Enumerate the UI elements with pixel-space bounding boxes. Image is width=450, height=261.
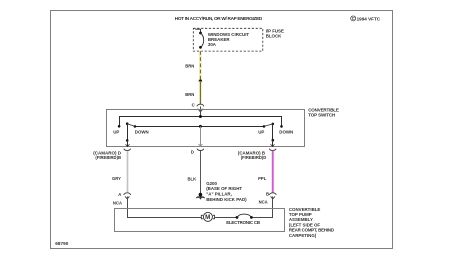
label: CONVERTIBLE TOP PUMP ASSEMBLY xyxy=(289,207,334,238)
svg-text:TOP SWITCH: TOP SWITCH xyxy=(308,113,335,118)
wire: PPL from switch to connector B xyxy=(271,151,274,193)
connector D at switch bottom center xyxy=(191,149,204,155)
svg-text:(BASE OF RIGHT: (BASE OF RIGHT xyxy=(206,186,242,191)
svg-text:BLK: BLK xyxy=(187,177,196,182)
wire: GRY from switch to connector A xyxy=(127,151,129,192)
right UP contact xyxy=(263,125,266,128)
svg-text:BRN: BRN xyxy=(185,64,194,69)
value label: WINDOWS CIRCUIT BREAKER 30A xyxy=(208,32,250,47)
wire: BLK from A into pump box xyxy=(128,196,202,217)
convertible top switch box xyxy=(107,110,305,147)
svg-text:UP: UP xyxy=(113,130,119,135)
wire: from B into pump box xyxy=(251,196,272,217)
convertible top pump assembly box xyxy=(115,209,285,232)
right DOWN contact xyxy=(280,125,283,128)
svg-text:NCA: NCA xyxy=(113,200,122,205)
svg-text:(FIREBIRD)D: (FIREBIRD)D xyxy=(241,155,267,160)
left DOWN contact xyxy=(134,125,137,128)
wire: motor to electronic CB xyxy=(215,217,237,219)
switch ground bus (line 2) xyxy=(135,126,264,128)
right pole wire down xyxy=(272,124,274,140)
wire: BRN solid from splice to connector C xyxy=(199,81,202,104)
svg-text:CONVERTIBLE: CONVERTIBLE xyxy=(308,107,339,112)
connector at left switch output (CAMARO D / FIREBIRD B) xyxy=(93,149,130,161)
left wiper xyxy=(127,124,135,127)
svg-text:M: M xyxy=(205,214,210,221)
svg-text:DOWN: DOWN xyxy=(279,130,293,135)
junction on ground bus xyxy=(199,125,202,128)
border frame xyxy=(51,11,393,249)
I/P fuse block dashed box xyxy=(193,28,262,51)
copyright 1994 VFTC xyxy=(351,16,381,21)
wire: BRN dashed feed from fuse block to splice xyxy=(199,51,202,81)
svg-text:BLOCK: BLOCK xyxy=(266,33,282,38)
right wiper xyxy=(264,124,273,127)
label: G200 location xyxy=(206,181,247,202)
svg-text:D: D xyxy=(191,149,194,154)
svg-text:C: C xyxy=(352,16,355,21)
svg-text:(FIREBIRD)B: (FIREBIRD)B xyxy=(95,155,121,160)
svg-text:30A: 30A xyxy=(208,42,217,47)
svg-text:UP: UP xyxy=(258,130,264,135)
circuit breaker (windows circuit breaker 30A) xyxy=(195,29,203,48)
svg-text:BEHIND KICK PAD): BEHIND KICK PAD) xyxy=(206,197,247,202)
junction on feed bus xyxy=(199,115,202,118)
svg-text:NCA: NCA xyxy=(259,199,268,204)
center drop to terminal D xyxy=(200,126,202,146)
connector A xyxy=(113,192,131,205)
connector at right switch output (CAMARO B / FIREBIRD D) xyxy=(238,149,276,161)
svg-text:ELECTRONIC CB: ELECTRONIC CB xyxy=(226,220,260,225)
svg-text:"A" PILLAR,: "A" PILLAR, xyxy=(206,192,232,197)
left pole pivot xyxy=(126,122,129,125)
svg-text:A: A xyxy=(118,192,121,197)
pump motor M xyxy=(201,212,214,221)
svg-text:DOWN: DOWN xyxy=(135,130,149,135)
svg-text:GRY: GRY xyxy=(112,176,121,181)
svg-text:C: C xyxy=(192,103,195,108)
svg-text:PPL: PPL xyxy=(258,176,267,181)
right pole pivot xyxy=(272,123,275,126)
label: CONVERTIBLE TOP SWITCH xyxy=(308,107,339,117)
svg-text:1994 VFTC: 1994 VFTC xyxy=(357,16,381,21)
svg-text:HOT IN ACCY/RUN, OR W/ RAP ENE: HOT IN ACCY/RUN, OR W/ RAP ENERGIZED xyxy=(175,16,263,21)
svg-text:68790: 68790 xyxy=(55,241,68,246)
label: I/P FUSE BLOCK xyxy=(266,28,284,38)
svg-text:BRN: BRN xyxy=(185,92,194,97)
electronic circuit breaker in pump xyxy=(226,214,260,225)
connector C at switch xyxy=(192,103,204,117)
switch feed bus (line 1) xyxy=(120,117,282,127)
wire: BLK from D to ground xyxy=(200,151,202,193)
ground G200 xyxy=(196,193,205,200)
svg-text:CARPETING): CARPETING) xyxy=(289,233,317,238)
connector B xyxy=(259,192,277,205)
left UP contact xyxy=(118,125,121,128)
splice junction xyxy=(199,80,202,83)
left pole wire down xyxy=(127,124,129,141)
svg-text:G200: G200 xyxy=(206,181,217,186)
svg-text:B: B xyxy=(266,192,269,197)
